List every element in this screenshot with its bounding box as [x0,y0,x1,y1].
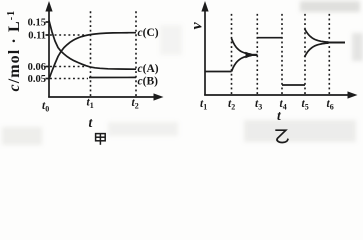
svg-text:t: t [89,115,94,130]
lower rate branch after t5 [305,43,329,57]
svg-text:t6: t6 [327,98,334,112]
upper rate branch after t5 [305,29,329,43]
left y-axis tick 0.05 [46,78,50,80]
right graph y-axis arrowhead [201,1,208,12]
merged rate segment to t3 [250,54,258,56]
svg-text:v: v [189,22,206,30]
right caption 乙 (drawn glyph) [275,130,288,142]
left y-axis tick 0.15 [46,21,50,23]
left y-axis tick 0.11 [46,34,50,36]
svg-text:0.06: 0.06 [28,62,46,73]
right graph x-axis [204,94,350,96]
upper rate branch after t2 [232,39,252,55]
dotted vertical line at t2 (left graph) [135,11,137,96]
svg-text:c(C): c(C) [138,27,159,39]
dotted horizontal line at 0.05 [50,78,88,80]
dotted vertical line at t5 (right graph) [304,13,306,95]
left graph x-axis [48,96,156,98]
dotted horizontal line at 0.06 [50,66,86,68]
left graph x-axis arrowhead [154,93,164,100]
dotted vertical line at t1 (left graph) [90,11,92,96]
dotted horizontal line at 0.11 [50,34,87,36]
merged rate segment after t6 [327,42,345,44]
right graph x-axis arrowhead [348,91,358,98]
curve c(C) [49,33,136,79]
left caption 甲 (drawn glyph) [96,134,106,145]
svg-text:t0: t0 [42,100,49,114]
lower rate branch after t2 [232,56,252,72]
dotted vertical line at t6 (right graph) [328,13,330,95]
svg-text:c(A): c(A) [138,63,159,75]
curve c(A) [49,21,136,70]
svg-text:c/mol · L-1: c/mol · L-1 [6,10,23,92]
rate segment t3-t4 [257,37,282,39]
svg-text:t2: t2 [132,97,139,111]
dotted vertical line at t4 (right graph) [281,13,283,95]
svg-text:0.11: 0.11 [28,31,46,42]
right graph y-axis [204,8,206,96]
dotted vertical line at t2 (right graph) [231,13,233,95]
svg-text:0.15: 0.15 [28,18,46,29]
left graph y-axis [48,8,50,98]
rate segment t4-t5 [282,84,305,86]
junction wedge at t2-t3 convergence [246,52,254,58]
left y-axis tick 0.06 [46,66,50,68]
svg-text:0.05: 0.05 [28,74,46,85]
svg-text:t1: t1 [200,98,207,112]
initial rate segment t1-t2 [205,71,232,73]
dotted vertical line at t3 (right graph) [256,13,258,95]
svg-text:t1: t1 [87,97,94,111]
svg-text:t5: t5 [302,98,309,112]
line c(B) [89,76,136,78]
svg-text:t2: t2 [228,98,235,112]
left graph y-axis arrowhead [45,1,52,12]
svg-text:t3: t3 [255,98,262,112]
svg-text:c(B): c(B) [138,75,159,87]
